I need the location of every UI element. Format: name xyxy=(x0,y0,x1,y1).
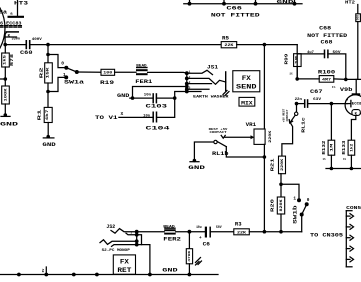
resistor R20 xyxy=(271,197,285,214)
label C66 NOT FITTED xyxy=(211,6,260,19)
svg-text:+: + xyxy=(199,236,202,241)
svg-text:HT3: HT3 xyxy=(14,0,28,6)
ground label GND xyxy=(0,121,19,128)
wire JS2 to FER2 xyxy=(137,231,165,233)
svg-text:C6: C6 xyxy=(203,241,210,247)
svg-text:100: 100 xyxy=(103,72,112,76)
label HT3 xyxy=(14,0,28,6)
ferrite bead FER1 xyxy=(135,64,152,85)
node A junction xyxy=(173,96,177,100)
node R78 junction xyxy=(4,77,8,81)
svg-text:GND: GND xyxy=(188,165,206,171)
ground label GND at C103 xyxy=(117,93,129,99)
resistor R19 xyxy=(100,69,115,86)
svg-text:820K: 820K xyxy=(279,199,283,211)
label GND on top bus xyxy=(277,0,294,5)
svg-text:+5V REST: +5V REST xyxy=(283,108,286,122)
node X label xyxy=(121,111,124,117)
tube V9b cathode box K xyxy=(352,110,360,117)
tube V9b anode xyxy=(352,79,361,94)
resistor R133 xyxy=(342,140,355,161)
tube V9b envelope xyxy=(345,95,361,115)
svg-text:10n: 10n xyxy=(144,92,151,96)
wire R21 bottom lead xyxy=(280,174,282,197)
svg-text:CONTACT: CONTACT xyxy=(286,109,289,121)
wire SW1b common to bus xyxy=(301,215,303,232)
resistor HT2 dropper at edge xyxy=(356,5,361,80)
tube V8a cathode xyxy=(5,32,19,45)
wire FER2 to C6 xyxy=(176,231,207,233)
resistor R100 xyxy=(318,70,336,89)
wire anode node to edge xyxy=(346,78,361,80)
capacitor C104 xyxy=(143,112,170,132)
svg-text:C68: C68 xyxy=(319,26,331,32)
svg-text:1: 1 xyxy=(293,196,296,201)
resistor R99 xyxy=(284,53,301,75)
potentiometer VR1 xyxy=(246,122,273,144)
label V8a (clipped at edge) xyxy=(0,10,7,16)
tube V8a grid (dashed) xyxy=(0,26,22,28)
svg-text:100K: 100K xyxy=(4,88,8,101)
resistor R78 xyxy=(2,53,15,67)
svg-text:50V: 50V xyxy=(333,50,341,54)
wire node A to earth washer line xyxy=(175,92,201,99)
ground node dot xyxy=(1,113,10,117)
svg-text:R1: R1 xyxy=(36,109,42,120)
node cathode bus junctions xyxy=(330,167,354,171)
wire cathode bus xyxy=(326,155,361,168)
node R2 top junction on C60 wire xyxy=(46,43,50,47)
svg-text:R20: R20 xyxy=(271,198,276,212)
wire junction to SW1b contact 1 xyxy=(281,184,299,200)
connector CN305 xyxy=(346,205,361,267)
wire node A down to C104 xyxy=(157,98,175,117)
svg-text:330n: 330n xyxy=(12,37,21,41)
svg-text:4k7: 4k7 xyxy=(45,110,50,121)
capacitor C6 xyxy=(196,225,222,247)
svg-text:R21: R21 xyxy=(271,158,276,172)
svg-text:X: X xyxy=(121,111,124,117)
capacitor C103 xyxy=(144,92,168,109)
wire main vertical R5 node to VR1 xyxy=(263,45,265,129)
jack JS1 contact 3 xyxy=(187,83,212,85)
tube V8a heater line xyxy=(6,36,17,38)
connector CN305 pins xyxy=(346,214,353,262)
jack JS1 contact 5 xyxy=(187,88,209,90)
node R132 junction xyxy=(330,102,334,106)
svg-text:CON5: CON5 xyxy=(346,205,361,211)
svg-text:JS2: JS2 xyxy=(106,224,115,230)
svg-text:1M: 1M xyxy=(329,144,333,152)
svg-text:220K: 220K xyxy=(280,159,284,171)
resistor R2 xyxy=(39,63,53,83)
svg-text:TO V1: TO V1 xyxy=(95,115,118,121)
svg-text:22K: 22K xyxy=(224,44,234,48)
jack JS2 pin dots xyxy=(135,230,139,247)
node anode junction xyxy=(344,78,348,82)
node cathode junction xyxy=(3,43,7,47)
wire R2 bottom lead xyxy=(47,83,49,107)
jack JS1 label xyxy=(207,64,218,70)
label C68 NOT FITTED xyxy=(307,26,347,46)
node main vertical bottom xyxy=(263,230,267,234)
svg-text:50V: 50V xyxy=(216,225,222,229)
svg-text:SW1a: SW1a xyxy=(64,79,85,85)
svg-text:RL1c: RL1c xyxy=(301,117,307,133)
jack JS1 ring contact xyxy=(187,78,226,84)
svg-text:15K: 15K xyxy=(47,66,51,78)
svg-text:R133: R133 xyxy=(342,140,347,154)
resistor R132 xyxy=(322,104,335,162)
wire R3 to SW1b bus xyxy=(249,231,301,233)
svg-text:GND: GND xyxy=(0,121,19,128)
svg-text:FER2: FER2 xyxy=(163,237,181,243)
label S2-PC MONOP xyxy=(102,248,130,252)
wire FER1 to JS1 tip xyxy=(148,71,187,74)
svg-text:10u: 10u xyxy=(196,225,202,229)
svg-text:V9b: V9b xyxy=(340,87,353,93)
svg-text:GND: GND xyxy=(42,142,56,148)
resistor R3 xyxy=(234,221,250,235)
svg-text:1k5: 1k5 xyxy=(3,55,8,65)
node R99-R100 left junction xyxy=(295,77,299,81)
label EARTH WASHER xyxy=(193,96,230,100)
wire bottom ground bus xyxy=(0,274,218,276)
svg-text:R5: R5 xyxy=(222,35,229,41)
wire GND node up to jack xyxy=(133,87,187,99)
switch SW1a xyxy=(61,61,85,86)
svg-text:R19: R19 xyxy=(100,80,114,86)
node GND junction xyxy=(131,96,135,100)
jack JS1 pin numbers xyxy=(189,71,191,90)
wire cathode to R133 xyxy=(351,115,355,140)
tube V9b label xyxy=(340,87,353,93)
svg-text:MIX: MIX xyxy=(241,101,254,107)
svg-text:1%: 1% xyxy=(343,158,347,161)
resistor R5 xyxy=(221,35,237,48)
wire VR1 wiper arrow xyxy=(225,135,255,139)
svg-text:TO CN305: TO CN305 xyxy=(310,233,343,239)
ferrite bead FER2 xyxy=(163,225,181,242)
svg-text:FER1: FER1 xyxy=(135,79,152,85)
svg-text:R78: R78 xyxy=(9,54,15,66)
box FX SEND xyxy=(233,71,260,92)
wire junction to SW1a contact 0 xyxy=(48,55,65,68)
wire C104 to V1 xyxy=(119,116,153,118)
svg-text:220K: 220K xyxy=(269,130,273,143)
wire GND to RL1b circle xyxy=(194,142,214,161)
svg-text:g: g xyxy=(346,98,348,101)
resistor below R78 xyxy=(2,86,10,104)
wire R78 top lead xyxy=(4,45,6,53)
svg-text:S2-PC MONOP: S2-PC MONOP xyxy=(102,248,130,252)
ground label GND bottom xyxy=(162,267,178,273)
svg-text:FX: FX xyxy=(242,75,251,82)
wire RL1c to R21 xyxy=(282,123,293,156)
svg-text:ECC8: ECC8 xyxy=(352,103,361,107)
svg-text:CONTACT: CONTACT xyxy=(210,131,227,134)
svg-text:JS1: JS1 xyxy=(207,64,218,70)
node SW1a branch junction xyxy=(46,53,50,57)
svg-text:EARTH WASHER: EARTH WASHER xyxy=(193,96,230,100)
wire R99 bottom lead xyxy=(296,67,298,79)
jack JS2 tip contact xyxy=(111,229,137,234)
jack JS2 contact 2 xyxy=(126,232,137,235)
wire top ground bus xyxy=(184,3,302,5)
svg-text:SEND: SEND xyxy=(236,83,257,90)
label ECC83 with pin 6 xyxy=(0,20,22,26)
node R21-R20 junction xyxy=(279,183,283,187)
ground node R1 xyxy=(43,135,54,139)
node bottom bus junctions xyxy=(17,273,191,277)
wire C67 to grid with R132 tap xyxy=(308,103,347,105)
svg-text:0: 0 xyxy=(307,198,310,203)
tube V8a anode plate xyxy=(8,13,25,17)
box FX RET xyxy=(113,255,135,274)
box MIX xyxy=(239,97,255,106)
node RL1b junction xyxy=(263,155,267,159)
svg-text:1k2: 1k2 xyxy=(349,144,353,152)
wire cathode to C60 xyxy=(5,44,26,46)
svg-text:RET: RET xyxy=(117,267,132,274)
wire junction to SW1a contact 1 xyxy=(48,77,65,91)
wire SW1a common to R19 xyxy=(77,71,101,73)
svg-text:0: 0 xyxy=(61,61,64,67)
wire R78 bottom lead xyxy=(4,67,6,86)
jack JS2 pin bus xyxy=(136,232,138,245)
svg-text:R99: R99 xyxy=(284,53,290,64)
svg-text:56K: 56K xyxy=(357,15,360,21)
chassis earth glyph xyxy=(196,258,202,266)
svg-text:NOT FITTED: NOT FITTED xyxy=(307,33,347,39)
jack JS2 ring contact xyxy=(100,240,137,245)
svg-text:SW1b: SW1b xyxy=(293,205,299,223)
svg-text:6V: 6V xyxy=(42,269,45,273)
wire resistor to ground xyxy=(4,104,6,115)
resistor R1 xyxy=(36,107,52,122)
svg-text:1: 1 xyxy=(63,72,66,78)
ground label GND xyxy=(42,142,56,148)
node VR1 branch junction xyxy=(263,43,267,47)
svg-text:HT2: HT2 xyxy=(345,0,355,5)
label TO CN305 xyxy=(310,233,343,239)
svg-text:C66: C66 xyxy=(226,6,242,12)
wire C60 to R5 line xyxy=(30,44,222,46)
wire R100 leads xyxy=(297,78,346,81)
svg-text:GND: GND xyxy=(162,267,178,273)
capacitor C60 xyxy=(12,37,43,56)
wire R1 to ground xyxy=(47,123,49,137)
svg-text:4M7: 4M7 xyxy=(322,79,331,83)
svg-text:63V: 63V xyxy=(313,97,321,101)
switch SW1b xyxy=(293,196,310,223)
wire JS2 sleeve to bus xyxy=(137,245,150,275)
svg-text:R132: R132 xyxy=(322,140,327,154)
svg-text:FX: FX xyxy=(120,258,129,265)
node RL1c junction xyxy=(295,102,299,106)
wire R2 top lead xyxy=(47,45,49,63)
wire stub left from junction xyxy=(0,78,5,80)
capacitor C68 xyxy=(297,50,346,80)
tube V9b grid xyxy=(346,98,361,107)
svg-text:22K: 22K xyxy=(237,231,247,235)
svg-text:C67: C67 xyxy=(310,89,323,95)
wire HT3 to anode xyxy=(17,0,19,16)
jack JS2 contact 4 xyxy=(112,245,137,247)
jack JS1 pin dots xyxy=(185,71,189,93)
wire RL1c node to C67 xyxy=(297,103,305,105)
jack JS2 label xyxy=(106,224,115,230)
relay contact RL1c xyxy=(283,104,307,133)
jack JS1 tip contact xyxy=(187,70,213,74)
wire R20 bottom lead xyxy=(280,214,282,232)
wire RL1b common to main vertical xyxy=(226,147,264,157)
wire R5 to R99 corner xyxy=(237,44,298,46)
label HT2 xyxy=(345,0,355,5)
svg-text:C60: C60 xyxy=(20,49,33,56)
wire JS2 contact2 link xyxy=(137,235,142,245)
resistor below FER2 xyxy=(186,232,192,275)
capacitor C67 xyxy=(295,89,323,108)
svg-text:GND: GND xyxy=(117,93,129,99)
tube V8a envelope arc xyxy=(0,8,5,48)
wire R19 to FER1 xyxy=(115,71,136,73)
jack JS1 earth hatch xyxy=(223,91,229,96)
relay contact RL1b xyxy=(209,128,229,157)
node FX return junction xyxy=(188,230,192,234)
svg-text:R3: R3 xyxy=(235,221,242,227)
svg-text:R2: R2 xyxy=(39,67,45,78)
svg-text:4u7: 4u7 xyxy=(307,50,314,54)
jack JS1 pin bus xyxy=(186,73,188,91)
wire R99 top lead xyxy=(296,45,298,54)
svg-text:1%: 1% xyxy=(323,158,327,161)
svg-text:NOT FITTED: NOT FITTED xyxy=(211,13,260,19)
svg-text:1%: 1% xyxy=(332,86,336,89)
svg-text:C68: C68 xyxy=(321,40,333,46)
svg-text:C103: C103 xyxy=(146,102,169,109)
node top bus junctions with stubs xyxy=(188,0,297,6)
svg-text:470K: 470K xyxy=(188,250,191,261)
svg-text:C104: C104 xyxy=(146,124,171,131)
svg-text:400V: 400V xyxy=(32,38,43,42)
ground label GND xyxy=(188,165,206,171)
svg-text:GND: GND xyxy=(277,0,294,5)
wire C103 to node A xyxy=(156,97,174,99)
svg-text:22n: 22n xyxy=(295,97,302,101)
jack JS1 body bar xyxy=(225,71,227,91)
svg-text:1%: 1% xyxy=(289,73,293,76)
wire GND to C103 xyxy=(130,97,153,99)
wire C6 to R3 xyxy=(210,231,234,233)
wire VR1 to bottom junction xyxy=(263,144,265,231)
resistor R21 xyxy=(271,156,286,174)
node R2-R1 junction xyxy=(46,90,50,94)
svg-text:R100: R100 xyxy=(318,70,335,76)
test point 6V xyxy=(42,267,46,275)
label TO V1 xyxy=(95,115,118,121)
svg-text:VR1: VR1 xyxy=(246,122,257,128)
ground node RL1b xyxy=(190,159,199,163)
node R20 bottom junction xyxy=(279,230,283,234)
